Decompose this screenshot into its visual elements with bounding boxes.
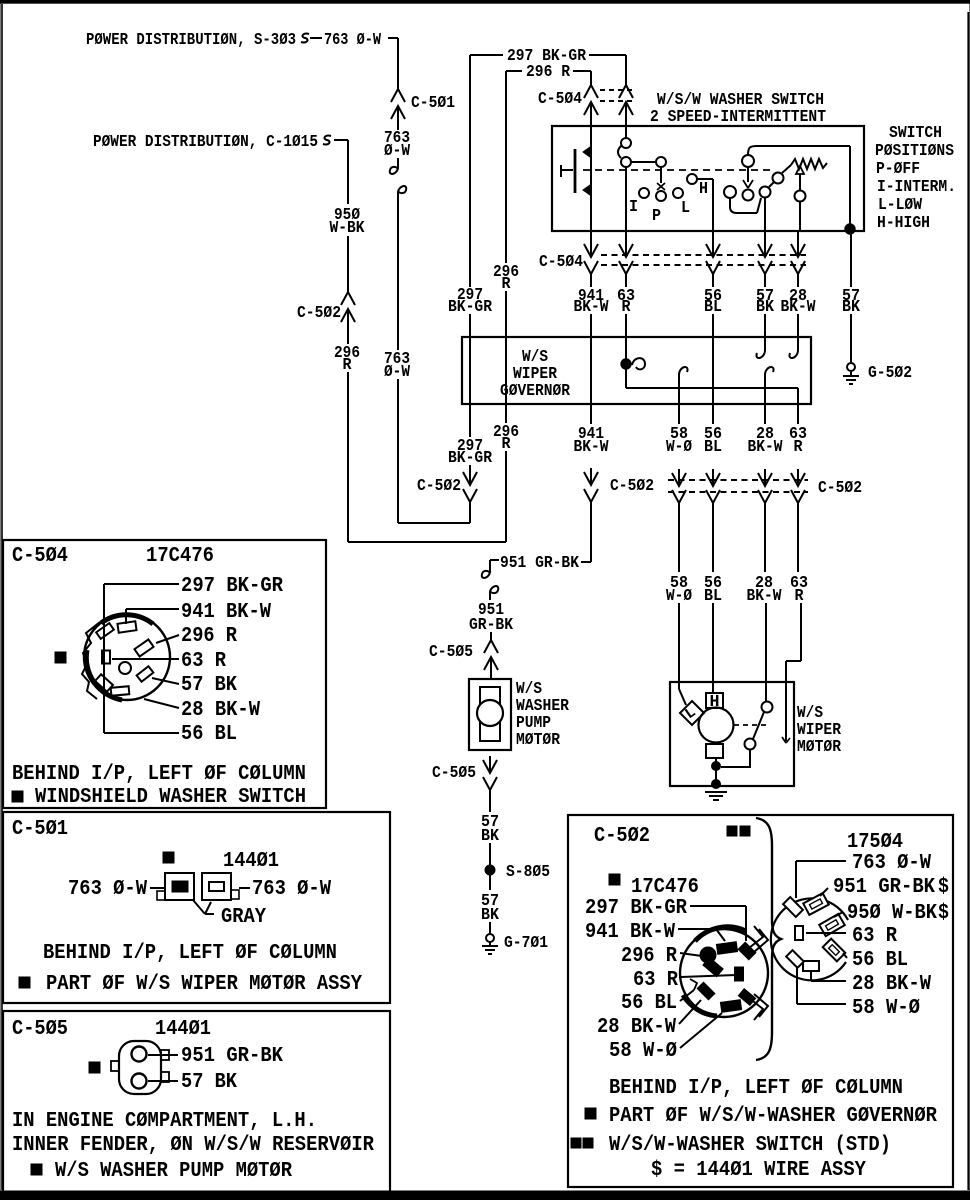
svg-text:56 BL: 56 BL	[181, 722, 237, 746]
svg-text:MØTØR: MØTØR	[797, 738, 842, 757]
svg-text:$: $	[938, 901, 949, 925]
wire 296 R left run down	[347, 372, 349, 542]
label W/S WIPER GOVERNOR	[500, 348, 571, 401]
svg-text:PØSITIØNS: PØSITIØNS	[875, 142, 954, 161]
label 57 BK (ground branch)	[842, 234, 861, 364]
label 28 BK-W (below governor)	[748, 425, 784, 457]
pin label 56 BL (17504)	[843, 948, 908, 972]
wire 296 R second run	[505, 71, 507, 542]
connector C-504 (bottom)	[539, 240, 806, 274]
svg-text:941 BK-W: 941 BK-W	[585, 920, 675, 944]
label 57 BK (second)	[481, 892, 500, 925]
svg-text:BK-W: BK-W	[747, 587, 783, 606]
park switch contacts	[745, 702, 773, 750]
wire stubs box to C-504	[591, 231, 798, 240]
svg-text:IN ENGINE CØMPARTMENT, L.H.: IN ENGINE CØMPARTMENT, L.H.	[12, 1109, 317, 1133]
svg-text:PØWER DISTRIBUTIØN, C-1Ø15: PØWER DISTRIBUTIØN, C-1Ø15	[93, 133, 318, 152]
dashed switch travel line	[583, 169, 770, 171]
pin label 58 W-0	[609, 1013, 722, 1063]
info box C-502	[568, 815, 953, 1187]
label 941 BK-W	[574, 287, 610, 317]
pin label 763 0-W (17504)	[796, 851, 931, 898]
label 763 0-W (second)	[384, 350, 411, 382]
label 2 SPEED-INTERMITTENT	[650, 108, 826, 127]
svg-text:R: R	[794, 438, 804, 457]
svg-text:56 BL: 56 BL	[852, 948, 908, 972]
pin leader 57 BK	[152, 673, 237, 697]
label wire 763 0-W	[324, 31, 382, 50]
svg-text:C-5Ø2: C-5Ø2	[594, 824, 650, 848]
svg-text:MØTØR: MØTØR	[516, 731, 561, 750]
svg-text:144Ø1: 144Ø1	[223, 849, 279, 873]
wire 296 R into switch	[590, 119, 592, 126]
black square marker	[163, 852, 174, 863]
svg-text:PART ØF W/S/W-WASHER GØVERNØR: PART ØF W/S/W-WASHER GØVERNØR	[609, 1104, 937, 1128]
info box C-505 14401	[3, 1011, 390, 1193]
svg-text:BK-W: BK-W	[574, 438, 610, 457]
wire into washer pump	[490, 674, 492, 679]
info box C-504 17C476	[3, 540, 326, 808]
svg-text:I-INTERM.: I-INTERM.	[877, 178, 956, 197]
wire 296 R to C-504	[573, 71, 591, 85]
pin label 63 R (17504)	[806, 924, 897, 948]
label 14401	[155, 1017, 211, 1041]
svg-text:G-5Ø2: G-5Ø2	[868, 364, 912, 383]
label C-501	[12, 817, 68, 841]
label 296 R (left, below governor)	[493, 423, 519, 454]
wire 57 BK from wiper arm	[764, 198, 766, 231]
terminal H	[706, 693, 723, 712]
svg-text:763 Ø-W: 763 Ø-W	[852, 851, 931, 875]
svg-text:W-Ø: W-Ø	[666, 438, 692, 457]
pin leader 941 BK-W	[126, 600, 271, 624]
wire 297 BK-GR to U-turn	[469, 502, 471, 523]
pin leader 951 GR-BK	[148, 1044, 283, 1068]
svg-text:W-BK: W-BK	[330, 219, 366, 238]
pin leader 297 BK-GR	[104, 574, 283, 733]
label 763 0-W (left)	[68, 877, 164, 901]
note W/S WASHER PUMP MOTOR	[31, 1159, 292, 1183]
svg-text:297 BK-GR: 297 BK-GR	[181, 574, 283, 598]
wire 951 GR-BK hook and break	[482, 560, 499, 600]
svg-text:63 R: 63 R	[633, 968, 678, 992]
note INNER FENDER, ON W/S/W RESERVOIR	[12, 1133, 374, 1157]
node POWER DISTRIBUTION C-1015	[93, 133, 318, 152]
ground G-502	[843, 363, 912, 384]
label 63 R (lower)	[790, 574, 808, 606]
label W/S/W WASHER SWITCH	[657, 91, 824, 110]
svg-text:57 BK: 57 BK	[181, 673, 237, 697]
label 951 GR-BK	[500, 554, 580, 573]
ground G-701	[482, 922, 548, 954]
connector C-502 (297 BK-GR)	[417, 468, 477, 502]
svg-text:C-5Ø1: C-5Ø1	[12, 817, 68, 841]
svg-text:28 BK-W: 28 BK-W	[181, 698, 260, 722]
svg-text:58 W-Ø: 58 W-Ø	[852, 996, 920, 1020]
note BEHIND I/P, LEFT OF COLUMN	[12, 762, 306, 786]
wires governor to labels	[591, 404, 798, 424]
label 58 W-0	[666, 425, 692, 457]
svg-text:17C476: 17C476	[146, 544, 214, 568]
governor box W/S WIPER GOVERNOR	[462, 337, 811, 404]
connector C-505 (top)	[429, 632, 498, 674]
label 17C476 with marker	[609, 874, 699, 899]
switch positions legend	[875, 124, 956, 233]
wires into governor	[591, 314, 798, 337]
label 56 BL (lower)	[704, 574, 722, 606]
wire 58 W-0 start curl	[679, 367, 688, 404]
svg-text:GRAY: GRAY	[221, 905, 266, 929]
label 297 BK-GR (left, above governor)	[448, 286, 493, 317]
svg-text:I: I	[629, 198, 638, 217]
wire 296 R top horizontal	[506, 70, 522, 72]
ground (wiper motor)	[705, 792, 727, 800]
svg-text:C-5Ø2: C-5Ø2	[818, 479, 862, 498]
connector face 17C476 (C-502 side)	[680, 926, 768, 1020]
svg-text:BK-W: BK-W	[748, 438, 784, 457]
wire 297 BK-GR left run	[469, 55, 471, 468]
svg-text:28 BK-W: 28 BK-W	[852, 972, 931, 996]
svg-text:296 R: 296 R	[181, 624, 237, 648]
wire 950 W-BK lower segment	[347, 236, 349, 292]
svg-text:INNER FENDER, ØN W/S/W RESERVØ: INNER FENDER, ØN W/S/W RESERVØIR	[12, 1133, 374, 1157]
svg-text:C-5Ø2: C-5Ø2	[417, 477, 461, 496]
pin label 56 BL	[621, 990, 694, 1015]
motor brush rectangle	[706, 744, 723, 758]
note WINDSHIELD WASHER SWITCH	[12, 785, 306, 809]
svg-text:GØVERNØR: GØVERNØR	[500, 382, 571, 401]
wire 950 W-BK from C-1015	[334, 140, 348, 204]
wire 941 BK-W to 951 GR-BK label	[581, 502, 591, 562]
label 28 BK-W	[781, 287, 817, 317]
contact H and wire 56 BL	[687, 174, 713, 231]
label 763 0-W	[384, 123, 411, 161]
svg-text:941 BK-W: 941 BK-W	[181, 600, 271, 624]
label 296 R (left, above governor)	[493, 263, 519, 294]
wire to P contact	[631, 157, 666, 183]
junction dots and ground wire	[712, 758, 721, 789]
wire 941 BK-W through governor	[590, 337, 592, 404]
svg-text:28 BK-W: 28 BK-W	[597, 1015, 676, 1039]
connector C-505 face	[111, 1041, 169, 1094]
label W/S WASHER PUMP MOTOR	[516, 680, 570, 750]
label 296 R	[334, 326, 360, 375]
double square marker	[727, 826, 750, 836]
svg-text:PØWER DISTRIBUTIØN, S-3Ø3: PØWER DISTRIBUTIØN, S-3Ø3	[86, 31, 296, 50]
label 63 R	[617, 287, 635, 317]
wiper arm contacts chain	[724, 165, 791, 213]
label GRAY with pointer	[193, 900, 266, 929]
label 950 W-BK	[330, 206, 366, 238]
svg-text:95Ø W-BK: 95Ø W-BK	[847, 901, 937, 925]
connector face 17504	[771, 893, 848, 980]
svg-text:BL: BL	[704, 438, 722, 457]
label C-502	[594, 824, 650, 848]
svg-text:58 W-Ø: 58 W-Ø	[609, 1039, 677, 1063]
label 56 BL (below governor)	[704, 425, 722, 457]
svg-text:C-5Ø5: C-5Ø5	[12, 1017, 68, 1041]
wire 63 R internal L-path	[626, 369, 798, 404]
resistor (intermittent rheostat)	[791, 159, 827, 169]
wire 57 BK below pump	[489, 790, 491, 812]
pin label 297 BK-GR	[585, 896, 746, 941]
label 58 W-0	[666, 574, 692, 606]
svg-text:C-5Ø1: C-5Ø1	[411, 94, 455, 113]
wire 63 R below contacts	[625, 167, 627, 231]
svg-text:H-HIGH: H-HIGH	[877, 214, 930, 233]
note BEHIND I/P, LEFT OF COLUMN (C-502)	[609, 1076, 903, 1100]
svg-text:BEHIND I/P, LEFT ØF CØLUMN: BEHIND I/P, LEFT ØF CØLUMN	[609, 1076, 903, 1100]
svg-text:C-5Ø4: C-5Ø4	[539, 253, 583, 272]
svg-text:W/S WASHER PUMP MØTØR: W/S WASHER PUMP MØTØR	[55, 1159, 292, 1183]
wire 763 0-W top segment	[388, 38, 398, 89]
pin leader 296 R	[156, 624, 237, 648]
pin label 58 W-0 (17504)	[797, 968, 920, 1020]
svg-text:C-5Ø4: C-5Ø4	[12, 544, 68, 568]
label 63 R (below governor)	[789, 425, 807, 457]
pin label 951 GR-BK $	[820, 875, 949, 899]
wire 28 BK-W down	[764, 503, 766, 572]
note W/S/W-WASHER SWITCH (STD)	[571, 1133, 891, 1157]
label 17504	[847, 830, 903, 854]
connector C-502 (950 W-BK / 296 R)	[297, 292, 355, 326]
connector C-501	[391, 89, 455, 123]
junction dot 63 R in governor	[621, 337, 645, 369]
contact circles wire 297	[618, 138, 631, 167]
pin label 950 W-BK $	[834, 901, 949, 925]
label 941 BK-W (below governor)	[574, 425, 610, 457]
svg-text:BEHIND I/P, LEFT ØF CØLUMN: BEHIND I/P, LEFT ØF CØLUMN	[12, 762, 306, 786]
label 297 BK-GR	[507, 47, 587, 66]
note $ = 14401 WIRE ASSY	[651, 1158, 866, 1182]
svg-text:296 R: 296 R	[526, 63, 571, 82]
pin label 28 BK-W (17504)	[811, 972, 931, 996]
svg-text:L-LØW: L-LØW	[878, 196, 923, 215]
svg-text:C-5Ø5: C-5Ø5	[429, 643, 473, 662]
svg-text:63 R: 63 R	[181, 649, 226, 673]
label 57 BK	[756, 287, 775, 317]
washer contact bar	[561, 149, 575, 193]
contact I	[629, 188, 649, 217]
junction dot 57 BK	[845, 224, 855, 234]
svg-text:763 Ø-W: 763 Ø-W	[324, 31, 382, 50]
pin leader 57 BK	[148, 1070, 237, 1094]
wire 56 BL through governor	[712, 337, 714, 404]
wire 297 BK-GR top horizontal	[470, 54, 503, 56]
pin label 941 BK-W	[585, 920, 725, 944]
label 951 GR-BK (stacked)	[469, 601, 514, 635]
svg-text:$ = 144Ø1 WIRE ASSY: $ = 144Ø1 WIRE ASSY	[651, 1158, 866, 1182]
svg-text:G-7Ø1: G-7Ø1	[504, 934, 548, 953]
wire 57 BK termination curl	[756, 337, 765, 358]
svg-text:144Ø1: 144Ø1	[155, 1017, 211, 1041]
wire 297 BK-GR to C-504	[589, 55, 626, 85]
label 297 BK-GR (left, below governor)	[448, 437, 493, 468]
svg-text:56 BL: 56 BL	[621, 991, 677, 1015]
label W/S WIPER MOTOR	[797, 704, 842, 757]
connector C-505 (bottom)	[432, 756, 497, 790]
contact P (x-mark and circle)	[652, 183, 666, 226]
svg-text:PART ØF W/S WIPER MØTØR ASSY: PART ØF W/S WIPER MØTØR ASSY	[46, 972, 362, 996]
wire 56 BL down	[712, 503, 714, 572]
svg-text:57 BK: 57 BK	[181, 1070, 237, 1094]
pin leader 63 R	[112, 649, 226, 673]
info box C-501 14401	[3, 812, 390, 1003]
switch assembly W/S/W WASHER SWITCH 2 SPEED-INTERMITTENT	[552, 126, 864, 231]
wire 63 R jog into motor park switch	[782, 603, 801, 743]
svg-text:297 BK-GR: 297 BK-GR	[585, 896, 687, 920]
svg-text:C-5Ø4: C-5Ø4	[538, 90, 582, 109]
svg-text:SWITCH: SWITCH	[889, 124, 942, 143]
wire 297 BK-GR into switch	[625, 119, 627, 138]
svg-text:W/S/W-WASHER SWITCH (STD): W/S/W-WASHER SWITCH (STD)	[609, 1133, 891, 1157]
pin leader 28 BK-W	[144, 698, 260, 722]
svg-text:H: H	[699, 180, 708, 199]
svg-text:763 Ø-W: 763 Ø-W	[252, 877, 331, 901]
wire 296 R through switch with wiper contacts	[583, 126, 591, 231]
svg-text:C-5Ø5: C-5Ø5	[432, 764, 476, 783]
wire break squiggles on 763 0-W	[390, 158, 406, 350]
connector C-502 (58/56/28/63 group)	[668, 469, 862, 503]
motor W/S WASHER PUMP MOTOR	[469, 679, 511, 750]
black square marker	[55, 652, 66, 663]
note PART OF W/S WIPER MOTOR ASSY	[19, 972, 362, 996]
node POWER DISTRIBUTION S-303	[86, 31, 296, 50]
label C-505	[12, 1017, 68, 1041]
wire 28 BK-W start curl	[765, 367, 774, 404]
motor armature circle	[699, 708, 734, 743]
connector face C-504	[82, 614, 170, 700]
wire 28 BK-W termination curl	[789, 337, 798, 358]
black square marker	[89, 1062, 100, 1073]
wire splice squiggle	[301, 34, 322, 43]
pin label 63 R	[633, 968, 736, 992]
note PART OF W/S/W-WASHER GOVERNOR	[585, 1104, 937, 1128]
pin leader 56 BL	[104, 722, 237, 746]
svg-text:R: R	[795, 587, 805, 606]
label 296 R	[526, 63, 571, 82]
wire 56 BL into motor	[712, 603, 714, 693]
svg-text:WINDSHIELD WASHER SWITCH: WINDSHIELD WASHER SWITCH	[35, 785, 306, 809]
svg-text:L: L	[681, 199, 690, 218]
motor box W/S WIPER MOTOR	[670, 682, 794, 786]
wire 58 W-0 down	[678, 503, 680, 572]
svg-text:BEHIND I/P, LEFT ØF CØLUMN: BEHIND I/P, LEFT ØF CØLUMN	[43, 941, 337, 965]
note IN ENGINE COMPARTMENT, L.H.	[12, 1109, 317, 1133]
contact L	[673, 188, 690, 218]
label 763 0-W (right)	[239, 877, 331, 901]
rheostat wiper arrow and wire 28 BK-W	[795, 166, 806, 231]
svg-text:2 SPEED-INTERMITTENT: 2 SPEED-INTERMITTENT	[650, 108, 826, 127]
svg-text:P-ØFF: P-ØFF	[876, 160, 920, 179]
label 17C476	[146, 544, 214, 568]
svg-text:951 GR-BK: 951 GR-BK	[833, 875, 935, 899]
svg-text:63 R: 63 R	[852, 924, 897, 948]
wire 28 BK-W into motor	[765, 603, 767, 701]
connector C-502 (941 BK-W)	[584, 468, 654, 502]
park switch wire to ground node	[721, 750, 750, 767]
svg-text:S-8Ø5: S-8Ø5	[506, 863, 550, 882]
label C-504	[12, 544, 68, 568]
pin label 28 BK-W	[597, 1000, 701, 1039]
svg-text:$: $	[938, 875, 949, 899]
svg-text:951 GR-BK: 951 GR-BK	[181, 1044, 283, 1068]
note BEHIND I/P, LEFT OF COLUMN	[43, 941, 337, 965]
label 28 BK-W (lower)	[747, 574, 783, 606]
wire 296 R bottom U-turn	[348, 541, 506, 543]
svg-text:P: P	[652, 207, 661, 226]
connector C-501 halves	[157, 873, 239, 900]
svg-text:C-5Ø2: C-5Ø2	[610, 477, 654, 496]
wire 763 0-W to bottom U-turn	[398, 379, 470, 523]
connector C-504 (top)	[538, 85, 634, 119]
svg-text:951 GR-BK: 951 GR-BK	[500, 554, 580, 573]
dashed link to park switch	[734, 724, 766, 726]
svg-text:763 Ø-W: 763 Ø-W	[68, 877, 147, 901]
curly brace	[756, 818, 781, 1060]
intermittent contact arrow and circle	[743, 167, 754, 201]
wire 63 R down	[797, 503, 799, 572]
high-speed feed circle and top wire	[742, 146, 850, 226]
wire splice squiggle	[323, 136, 331, 145]
svg-text:296 R: 296 R	[621, 944, 677, 968]
label 56 BL	[704, 287, 722, 317]
splice S-805	[485, 843, 550, 890]
wire 58 W-0 into motor	[679, 603, 686, 705]
svg-text:C-5Ø2: C-5Ø2	[297, 304, 341, 323]
wire labels above governor	[591, 274, 798, 287]
pin label 296 R	[621, 944, 702, 968]
terminal L (diamond)	[680, 701, 704, 725]
label 57 BK	[481, 813, 500, 846]
label 14401	[223, 849, 279, 873]
